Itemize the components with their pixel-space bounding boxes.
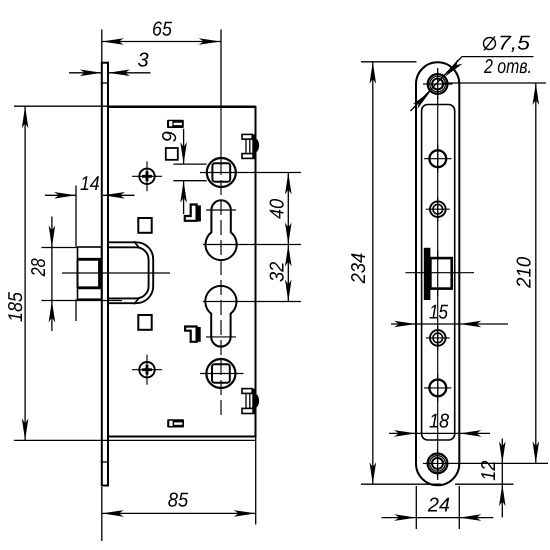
hook bolt band (left view)	[109, 242, 154, 303]
upper follower centerline	[200, 172, 301, 174]
dimension 14	[45, 186, 135, 322]
lower follower circle	[206, 359, 235, 388]
lower follower centerline	[200, 373, 244, 375]
small square top middle	[166, 148, 178, 160]
dimension 32	[285, 245, 292, 267]
dimension 40	[287, 173, 289, 302]
faceplate recess	[422, 105, 455, 441]
hook bolt bar (section)	[424, 248, 431, 300]
edge adjuster lower	[242, 389, 259, 414]
dimension 234	[361, 62, 441, 484]
lock case box	[108, 107, 256, 437]
lower cylinder big-circle centerline / 32 extension	[203, 301, 301, 303]
hole 4	[426, 326, 450, 350]
upper fixing screw	[132, 161, 162, 191]
upper cylinder small-circle centerline	[206, 209, 236, 211]
dimension 3	[69, 72, 151, 74]
dimension 65	[102, 30, 221, 63]
upper follower circle	[207, 158, 236, 187]
lower cylinder small-circle centerline	[206, 336, 236, 338]
small square left lower	[138, 315, 151, 330]
small square left upper	[138, 218, 151, 233]
hook centerlines in right view	[437, 250, 439, 296]
upper cylinder big-circle centerline / 40-32 extension	[203, 244, 301, 246]
hole 3	[426, 197, 450, 221]
hole 2	[424, 145, 452, 173]
bottom fixing hole	[423, 449, 452, 478]
rivet flag bottom	[167, 419, 184, 427]
lower follower square hole	[212, 364, 230, 382]
hook front rectangle	[430, 258, 451, 289]
lower fixing screw	[132, 355, 162, 385]
top fixing hole	[423, 69, 453, 99]
hook band bend marks	[134, 241, 140, 248]
dimension 18	[389, 432, 490, 434]
edge adjuster upper	[242, 134, 259, 158]
dimension 12	[455, 439, 514, 518]
dimension 28	[42, 217, 123, 332]
bolt centerline	[62, 272, 170, 274]
faceplate bend tick top	[101, 82, 109, 84]
faceplate edge strip	[101, 63, 109, 486]
dimension 85	[102, 437, 256, 541]
hole 5	[424, 374, 452, 402]
faceplate outline	[416, 62, 459, 485]
dimension 185	[14, 106, 256, 440]
faceplate bend tick bottom	[101, 461, 109, 463]
bolt outer box	[78, 247, 102, 299]
dimension 15	[391, 323, 508, 325]
leader diameter 7.5	[411, 57, 534, 111]
rivet flag top	[167, 120, 184, 128]
dimension 210	[442, 83, 548, 463]
upper euro cylinder hole	[205, 200, 236, 260]
dimension 9	[174, 129, 207, 214]
L-bracket upper	[185, 205, 201, 222]
bolt head thick edges	[78, 259, 101, 288]
lower euro cylinder hole	[205, 286, 236, 347]
vertical axis line through followers and cylinders	[220, 30, 222, 108]
L-bracket lower	[185, 327, 201, 342]
diameter symbol	[484, 37, 496, 51]
upper follower square hole	[212, 163, 230, 181]
dimension 24	[382, 486, 494, 529]
faceplate vertical centerline	[437, 68, 439, 480]
